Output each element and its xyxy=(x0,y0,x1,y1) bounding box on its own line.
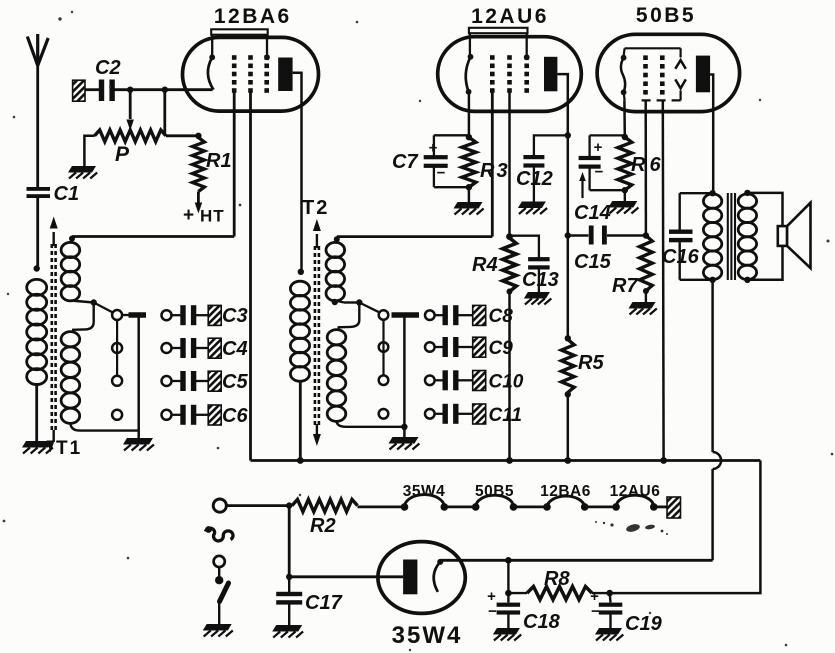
resistor R2 xyxy=(292,499,358,511)
node T2 tap right xyxy=(356,299,362,305)
node plate-C12 junction xyxy=(565,132,571,138)
ground C19 xyxy=(595,628,622,635)
tube 35W4 plate xyxy=(403,560,417,595)
output transformer core xyxy=(727,193,729,280)
wire R1 to HT xyxy=(197,192,200,205)
ground C12 xyxy=(518,202,546,209)
svg-text:35W4: 35W4 xyxy=(403,483,446,500)
scan smudge xyxy=(595,521,668,535)
wire C19 to ground xyxy=(609,615,611,629)
svg-text:+: + xyxy=(429,140,438,157)
svg-text:50B5: 50B5 xyxy=(475,483,514,500)
bus wire (AVC/return) xyxy=(251,459,761,462)
svg-text:C3: C3 xyxy=(222,305,248,327)
wire wiper to ground xyxy=(137,315,140,438)
wire C7-R3 frame top xyxy=(434,134,469,136)
ground C13 xyxy=(524,292,550,299)
capacitor C11 xyxy=(435,413,444,415)
wire pot left to ground xyxy=(84,136,94,166)
wire linking T2 switch contacts 1-3 xyxy=(382,320,384,376)
node T2 secondary top xyxy=(334,236,340,242)
node bus-50B5 screen xyxy=(660,457,667,464)
svg-text:R3: R3 xyxy=(480,160,510,182)
C14 pointer arrow xyxy=(581,177,583,198)
svg-text:R6: R6 xyxy=(631,154,665,176)
heater 35W4 xyxy=(401,503,409,511)
tube 12BA6 grid 3 xyxy=(264,55,269,60)
node R4 top xyxy=(506,233,513,240)
resistor R8 xyxy=(508,592,527,594)
wire heater link xyxy=(585,505,616,508)
T2 band switch contacts xyxy=(379,310,389,320)
wire C14-R6 frame bottom xyxy=(590,189,625,191)
antenna xyxy=(36,34,39,66)
wire C12 to ground xyxy=(533,168,535,202)
ground switch xyxy=(203,624,232,631)
node C2-pot junction xyxy=(127,87,133,93)
wire T2 primary to bus xyxy=(299,380,302,461)
wire tap to switch contact xyxy=(359,303,379,313)
tube 35W4 cathode xyxy=(437,559,443,565)
tube 50B5 grid 1 xyxy=(643,55,648,60)
potentiometer P xyxy=(95,130,166,142)
wire screen to C13 xyxy=(510,236,539,259)
trimmer terminals C3-C6 xyxy=(162,310,172,320)
ground R7 xyxy=(629,302,656,309)
svg-text:12AU6: 12AU6 xyxy=(610,483,661,500)
svg-text:R7: R7 xyxy=(612,275,638,297)
ground C17 xyxy=(272,625,302,632)
wire heater link xyxy=(444,505,475,508)
wire junction to ground xyxy=(403,427,406,437)
wire C1 to T1 xyxy=(36,197,39,271)
node secondary bottom xyxy=(744,277,750,283)
tube 12AU6 grid 2 xyxy=(507,55,512,60)
tube 12BA6 plate xyxy=(278,58,292,92)
wire C16 frame top xyxy=(680,192,713,194)
svg-text:R1: R1 xyxy=(206,150,232,172)
svg-text:+: + xyxy=(594,139,603,156)
node T1 secondary top xyxy=(69,236,75,242)
svg-text:C13: C13 xyxy=(522,269,559,291)
ground C18 xyxy=(493,628,520,635)
capacitor C2 xyxy=(99,80,104,102)
svg-text:12BA6: 12BA6 xyxy=(214,5,292,28)
wire C12 to plate line xyxy=(534,135,568,155)
svg-text:C10: C10 xyxy=(489,371,524,392)
svg-text:R8: R8 xyxy=(544,568,570,590)
svg-text:−: − xyxy=(488,603,497,620)
svg-text:35W4: 35W4 xyxy=(392,622,463,649)
wire 50B5 plate lead xyxy=(710,75,713,194)
node R1 top xyxy=(195,133,201,139)
svg-text:12AU6: 12AU6 xyxy=(471,5,549,28)
capacitor C16 xyxy=(679,193,681,230)
wire tap to lower coil xyxy=(338,303,360,328)
tube 12BA6 grid 1 xyxy=(232,55,237,60)
node C2-R1 junction xyxy=(162,87,168,93)
svg-text:T2: T2 xyxy=(302,197,329,219)
capacitor C12 xyxy=(523,155,544,159)
tube 12BA6 cathode xyxy=(209,54,215,60)
wire C16 frame bottom xyxy=(680,279,713,281)
svg-text:−: − xyxy=(437,165,446,182)
svg-text:C16: C16 xyxy=(662,246,700,268)
node C18 top xyxy=(505,590,512,597)
wire C17 to ground xyxy=(288,605,290,626)
transformer T2 primary coil xyxy=(290,281,309,296)
transformer T1 secondary upper coil xyxy=(61,242,80,257)
capacitor C17 xyxy=(288,577,290,593)
T2 switch wiper bar xyxy=(392,312,420,318)
svg-text:C15: C15 xyxy=(574,251,612,273)
capacitor C18 xyxy=(507,593,509,602)
svg-text:P: P xyxy=(115,143,130,166)
node cathode-C18 junction xyxy=(505,557,512,564)
output transformer secondary coil xyxy=(738,194,756,208)
wire R4 to bus xyxy=(508,292,511,461)
node bus-R5 xyxy=(564,457,571,464)
line input terminal xyxy=(213,499,226,512)
transformer T1 primary coil xyxy=(27,279,47,295)
node bus-T2 xyxy=(297,457,304,464)
capacitor C19 xyxy=(609,593,612,602)
ground R3 xyxy=(454,202,483,209)
ground T1 switch xyxy=(123,438,153,445)
tube 50B5 plate xyxy=(696,56,710,93)
wire 50B5 grid to R7 xyxy=(644,100,647,235)
wire terminal to R2 xyxy=(226,504,292,507)
transformer T2 secondary lower coil xyxy=(327,330,346,345)
tube 12AU6 grid 3 xyxy=(524,55,529,60)
tube 50B5 grid frame top xyxy=(625,47,681,49)
capacitor C9 xyxy=(435,346,444,348)
switch blade xyxy=(220,583,229,602)
trimmer terminal C10 xyxy=(425,376,435,386)
tube 12AU6 plate xyxy=(544,57,557,92)
capacitor C15 xyxy=(589,226,594,245)
wire C15 to R7 xyxy=(607,234,646,236)
svg-text:C19: C19 xyxy=(625,613,663,635)
wire plate junction to C15 xyxy=(568,234,589,236)
wire secondary to speaker top xyxy=(747,193,782,226)
svg-text:50B5: 50B5 xyxy=(636,4,696,27)
wire heater string end xyxy=(654,505,667,508)
wire pot to R1 xyxy=(166,134,199,137)
node R7 top xyxy=(643,232,649,238)
ground T2 switch xyxy=(389,437,419,444)
trimmer terminal C9 xyxy=(425,342,435,352)
capacitor C14 xyxy=(588,135,590,156)
tube 12BA6 grid 2 xyxy=(248,55,253,60)
node plate-C15 junction xyxy=(565,232,571,238)
wire C13 to ground xyxy=(538,269,540,293)
wire C18 to ground xyxy=(507,615,509,629)
trimmer terminal C11 xyxy=(425,409,435,419)
svg-text:R5: R5 xyxy=(578,352,604,374)
antenna input block xyxy=(73,80,85,101)
resistor R7 xyxy=(640,236,653,292)
svg-text:C2: C2 xyxy=(95,57,121,79)
wire R6 to ground xyxy=(624,190,626,201)
wire junction to 35W4 plate xyxy=(288,506,291,577)
tube 12AU6 envelope xyxy=(438,37,582,112)
wire 12AU6 cathode to R3 xyxy=(468,92,471,137)
heater 12BA6 xyxy=(543,503,551,511)
svg-text:C6: C6 xyxy=(222,405,248,427)
transformer T2 secondary upper coil xyxy=(326,242,345,257)
resistor R4 xyxy=(503,238,517,292)
wire 12BA6 grid2 down to bus xyxy=(249,90,252,461)
capacitor C13 xyxy=(528,257,550,261)
svg-text:C17: C17 xyxy=(305,592,343,614)
capacitor C3 xyxy=(172,314,182,316)
T1 band switch contacts xyxy=(112,310,122,320)
node T2 ground junction xyxy=(401,424,407,430)
wire B+ riser (primary bottom to 35W4 cathode) xyxy=(711,280,714,452)
heater string end block xyxy=(667,497,681,518)
resistor R5 xyxy=(565,335,571,341)
trimmer terminal C8 xyxy=(425,310,435,320)
wire secondary to speaker bottom xyxy=(747,246,782,280)
wire contact1 to wiper xyxy=(122,314,128,316)
tube 50B5 beam plates xyxy=(675,60,686,69)
wire heater link xyxy=(514,505,548,508)
resistor R3 xyxy=(466,134,472,140)
svg-text:12BA6: 12BA6 xyxy=(540,483,591,500)
ground T1 left xyxy=(22,441,52,448)
wire T1 tap xyxy=(70,301,93,303)
wire 50B5 cathode to R6 xyxy=(623,100,626,137)
node T1 primary top xyxy=(34,265,40,271)
wire R2 to heater string xyxy=(358,505,405,508)
tube 50B5 cathode xyxy=(623,48,626,55)
wire R3 to ground xyxy=(468,187,471,202)
wire 12AU6 plate lead xyxy=(557,74,567,341)
svg-text:C1: C1 xyxy=(54,183,80,205)
tube 35W4 envelope xyxy=(378,542,465,614)
node output transformer primary top xyxy=(709,190,715,196)
tube 12AU6 cathode xyxy=(468,54,474,60)
wire junction down to C18 xyxy=(507,560,509,593)
tube 12AU6 grid 1 xyxy=(490,55,495,60)
svg-text:−: − xyxy=(591,603,600,620)
wire T2 tap xyxy=(335,301,344,303)
tube 50B5 grid 2 xyxy=(660,55,665,60)
wire junction to pot wiper xyxy=(129,90,132,119)
node T1 tap xyxy=(91,299,97,305)
T2 tuning core (dashed) with arrows xyxy=(314,246,317,426)
svg-text:+: + xyxy=(183,205,194,226)
wire 12BA6 grid1 to T1 xyxy=(233,90,236,237)
wire tap to switch contact 1 xyxy=(94,303,113,313)
node T2 tap left xyxy=(332,299,338,305)
speaker xyxy=(778,226,787,246)
svg-text:R2: R2 xyxy=(310,515,336,537)
tube 50B5 envelope xyxy=(597,34,740,111)
T1 tuning core (dashed) with arrows xyxy=(50,244,53,432)
svg-text:−: − xyxy=(595,164,604,181)
wire linking switch contacts 1-3 xyxy=(116,320,118,375)
resistor R1 xyxy=(192,138,204,192)
node bus-R4 xyxy=(506,457,513,464)
wire 50B5 screen to bus xyxy=(662,100,665,460)
capacitor C1 xyxy=(27,187,51,191)
node secondary top xyxy=(744,190,750,196)
capacitor C10 xyxy=(435,379,444,381)
T1 switch wiper bar xyxy=(129,312,147,318)
switch contact xyxy=(214,556,225,567)
heater 50B5 xyxy=(472,503,480,511)
wire C2 to 12BA6 cathode xyxy=(113,88,213,91)
capacitor C7 xyxy=(433,135,435,155)
wire 12AU6 screen down xyxy=(508,90,511,237)
wire R5 to bus xyxy=(567,393,570,461)
wire bus to C19 junction xyxy=(610,461,761,594)
wire T2 lower coil to switch ground xyxy=(337,421,405,427)
wire C14-R6 frame top xyxy=(590,134,625,136)
wire C7-R3 frame bottom xyxy=(434,186,469,188)
wire antenna to C1 xyxy=(36,63,39,188)
svg-text:T1: T1 xyxy=(56,438,82,459)
svg-text:R4: R4 xyxy=(472,254,498,276)
wire T1 lower coil to switch ground xyxy=(70,423,138,431)
node C19 top xyxy=(606,590,613,597)
wire R7 to ground xyxy=(645,291,647,302)
wire pot right up to junction xyxy=(163,90,166,136)
tube 50B5 grid frame bottom (dashed) xyxy=(638,99,681,101)
wire tap to lower coil xyxy=(72,303,94,330)
transformer T1 secondary lower coil xyxy=(61,332,80,347)
tube 12BA6 top strap xyxy=(211,29,268,34)
capacitor C6 xyxy=(172,414,182,416)
svg-text:C7: C7 xyxy=(392,151,418,173)
wire 35W4 cathode out xyxy=(440,559,712,562)
node R2-C17 junction xyxy=(286,502,292,508)
capacitor C4 xyxy=(172,347,182,349)
resistor R6 xyxy=(622,134,628,140)
node output transformer primary bottom xyxy=(709,277,715,283)
capacitor C8 xyxy=(435,314,444,316)
heater 12AU6 xyxy=(612,503,620,511)
plug curl symbol xyxy=(206,528,234,541)
wire T2 wiper to ground xyxy=(403,315,406,427)
wire R8 to C19 xyxy=(592,592,610,594)
ground P xyxy=(68,166,96,173)
wire switch to ground xyxy=(218,601,220,624)
ground R6 xyxy=(608,201,637,208)
svg-text:HT: HT xyxy=(200,207,225,226)
wire 12BA6 plate lead xyxy=(293,73,302,272)
wire T1 primary to ground xyxy=(35,383,38,441)
output transformer primary coil xyxy=(703,194,721,208)
svg-text:C18: C18 xyxy=(523,611,561,633)
switch pivot xyxy=(218,567,220,577)
svg-text:C14: C14 xyxy=(574,202,611,224)
wire block to C2 xyxy=(85,88,101,91)
svg-text:C4: C4 xyxy=(222,338,248,360)
node T2 primary top xyxy=(298,269,304,275)
svg-text:C5: C5 xyxy=(222,371,248,393)
tube 12BA6 envelope xyxy=(183,37,319,111)
svg-text:C11: C11 xyxy=(489,405,522,426)
capacitor C5 xyxy=(172,380,182,382)
tube 12AU6 top strap xyxy=(469,28,528,33)
wire T2 secondary top to 12AU6 grid xyxy=(337,235,493,238)
